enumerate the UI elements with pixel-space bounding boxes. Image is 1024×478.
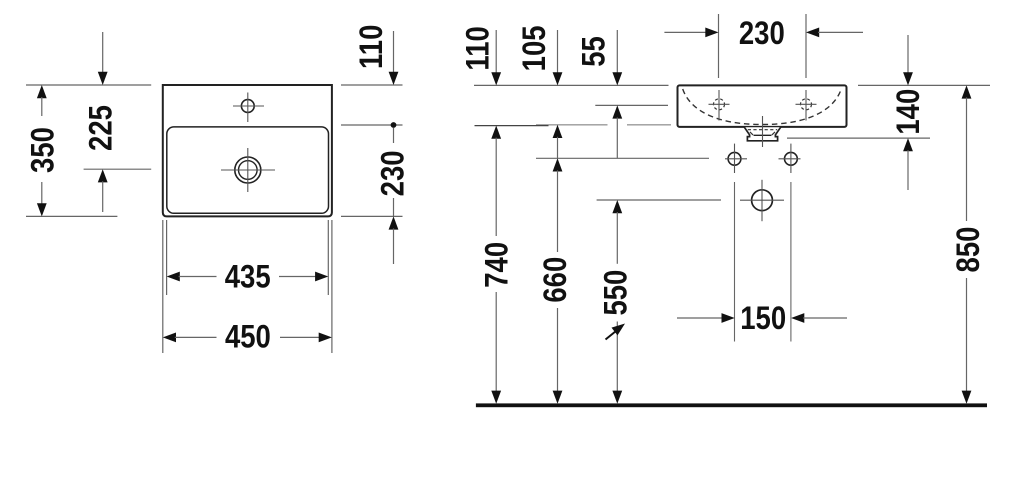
svg-text:150: 150 xyxy=(740,301,786,336)
plan bottom edge extension line left xyxy=(26,215,117,217)
pointer arrow near 550 xyxy=(606,324,626,340)
ref line 140 below rim xyxy=(787,137,930,139)
ref line 660 above floor xyxy=(536,157,709,159)
svg-text:230: 230 xyxy=(739,16,785,51)
dimension 350 xyxy=(25,85,60,216)
floor line xyxy=(476,403,987,407)
rim reference line left xyxy=(474,84,669,86)
dimension 140 xyxy=(891,35,926,190)
dimension 105 (front) xyxy=(517,25,562,158)
drain fitting axis xyxy=(762,116,764,147)
rim reference line right xyxy=(858,84,990,86)
plan top edge extension line right xyxy=(341,84,403,86)
svg-text:230: 230 xyxy=(376,150,411,196)
svg-text:435: 435 xyxy=(225,260,271,295)
basin inner bowl (plan) xyxy=(167,127,329,213)
dimension 110 (plan) xyxy=(354,25,398,85)
plan bottom edge extension line right xyxy=(341,215,403,217)
svg-text:55: 55 xyxy=(577,36,612,67)
bowl profile (dashed) xyxy=(683,89,842,125)
reference line depth 110 (plan) xyxy=(341,124,403,126)
svg-text:660: 660 xyxy=(538,257,573,303)
ref line 110 below rim / 740 above floor xyxy=(475,125,549,127)
dimension 550 xyxy=(599,200,634,404)
dimension 55 (front) xyxy=(577,30,623,158)
svg-text:850: 850 xyxy=(951,227,986,273)
svg-text:740: 740 xyxy=(480,242,515,288)
dimension 230 (plan) xyxy=(376,128,411,264)
svg-text:110: 110 xyxy=(354,25,389,69)
dot marker xyxy=(391,122,397,128)
svg-text:350: 350 xyxy=(25,127,60,173)
faucet hole right (front) xyxy=(801,99,812,110)
mounting hole left (front) xyxy=(728,152,741,165)
dimension 740 xyxy=(480,126,515,404)
dimension 435 xyxy=(167,220,329,295)
drain cross (plan) xyxy=(221,169,275,171)
drain fitting (front) xyxy=(744,127,780,141)
ref line 55 below rim xyxy=(595,104,668,106)
faucet hole (plan) xyxy=(241,100,254,113)
svg-text:105: 105 xyxy=(517,25,552,71)
dimension 150 xyxy=(677,301,847,336)
dimension 230 (front) xyxy=(664,14,863,78)
drain (plan) xyxy=(235,157,261,183)
plan top edge extension line left xyxy=(26,84,151,86)
svg-text:140: 140 xyxy=(891,89,926,135)
mounting hole right (front) xyxy=(785,152,798,165)
dimension 450 xyxy=(163,220,332,355)
svg-text:110: 110 xyxy=(461,26,496,70)
faucet hole cross (plan) xyxy=(233,105,264,107)
basin outer rim (plan) xyxy=(163,85,332,216)
faucet hole left (front) xyxy=(714,99,725,110)
svg-text:225: 225 xyxy=(84,105,119,151)
basin body (front) xyxy=(678,85,847,127)
svg-text:450: 450 xyxy=(225,320,271,355)
dimension 110 (front) xyxy=(461,26,501,85)
ref line 105 below rim (gray) xyxy=(536,124,608,126)
ref line 550 above floor (drain axis) xyxy=(597,199,721,201)
dimension 660 xyxy=(538,158,573,403)
dimension 850 xyxy=(951,85,986,403)
drain pipe (front) xyxy=(752,190,773,211)
svg-text:550: 550 xyxy=(599,270,634,316)
dimension 225 xyxy=(84,32,152,212)
